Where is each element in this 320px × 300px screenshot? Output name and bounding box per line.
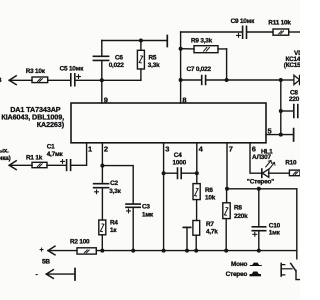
resistor R1 — [32, 162, 47, 167]
wire R11 right cut — [289, 31, 300, 33]
wire pin 2 — [101, 143, 103, 184]
wire rail — [96, 250, 296, 252]
node output-left arrow — [9, 164, 32, 166]
svg-text:С2: С2 — [110, 180, 118, 187]
svg-text:R7: R7 — [206, 221, 214, 228]
svg-text:6: 6 — [252, 145, 256, 154]
svg-text:R2 100: R2 100 — [70, 239, 90, 246]
node pin7 branch — [225, 187, 229, 191]
svg-text:3,3k: 3,3k — [148, 62, 160, 69]
svg-text:4,7мк: 4,7мк — [47, 151, 64, 158]
svg-text:220k: 220k — [234, 213, 248, 220]
wire pin 7 — [226, 143, 228, 189]
wire C1 to R1 — [47, 164, 66, 166]
resistor R2 — [77, 248, 96, 254]
wire R3 to C5 — [48, 79, 70, 81]
svg-text:R9 3,3k: R9 3,3k — [191, 38, 213, 45]
capacitor C5 — [71, 74, 75, 86]
svg-text:1к: 1к — [110, 227, 117, 234]
capacitor C10 — [252, 227, 265, 231]
svg-text:+: + — [40, 247, 44, 254]
ground chassis bar minus — [74, 269, 76, 281]
wire top rail to C9 — [181, 31, 242, 33]
switch SA1 stereo/mono — [296, 189, 298, 259]
svg-text:АЛ307: АЛ307 — [252, 154, 271, 161]
wire loop left vertical with C6 — [101, 41, 103, 81]
svg-text:1: 1 — [88, 144, 92, 153]
wire C7 row left — [181, 79, 202, 81]
svg-text:С1: С1 — [47, 144, 55, 151]
svg-text:R6: R6 — [205, 187, 213, 194]
svg-text:КА2263): КА2263) — [37, 120, 65, 129]
resistor R10 — [289, 170, 300, 176]
svg-text:R10: R10 — [285, 159, 297, 166]
resistor R6 — [193, 184, 200, 200]
node pin5 junction — [279, 133, 283, 137]
capacitor C1 — [67, 160, 71, 171]
node rail tap — [185, 249, 189, 253]
node junction pin9 — [100, 78, 104, 82]
bottom rail wire — [48, 250, 77, 252]
wire pin 1 — [71, 143, 86, 166]
svg-text:С9 10мк: С9 10мк — [231, 18, 256, 25]
wire zener node down — [280, 80, 282, 135]
svg-text:С4: С4 — [174, 152, 182, 159]
svg-text:R11 10k: R11 10k — [268, 20, 291, 27]
wire pin 5 — [266, 134, 293, 136]
node C7 left — [179, 78, 183, 82]
capacitor C2 — [94, 184, 109, 188]
capacitor C6 — [93, 56, 108, 60]
node zener top — [279, 78, 283, 82]
resistor R3 — [32, 77, 48, 83]
svg-text:R5: R5 — [149, 54, 157, 61]
node R9 tap — [179, 47, 183, 51]
svg-text:С3: С3 — [142, 204, 150, 211]
wire pin 4 — [196, 143, 198, 184]
svg-text:1000: 1000 — [173, 159, 187, 166]
resistor R11 — [273, 29, 289, 35]
wire C10 branch — [258, 189, 260, 227]
capacitor C9 — [243, 26, 247, 38]
svg-text:R4: R4 — [110, 220, 118, 227]
svg-text:Стерео: Стерео — [226, 271, 248, 278]
svg-text:2: 2 — [104, 144, 108, 153]
terminal tap bar near R7 — [183, 226, 190, 228]
ground chassis bar top — [166, 36, 168, 47]
capacitor C4 — [164, 172, 197, 174]
svg-text:ика): ика) — [0, 155, 11, 162]
svg-text:5В: 5В — [42, 259, 50, 266]
wire pin 8 vertical — [180, 32, 182, 103]
node C8 tap — [279, 109, 283, 113]
svg-text:(КС15: (КС15 — [284, 62, 300, 69]
node C10 tap — [257, 187, 261, 191]
node rail R7 — [194, 249, 198, 253]
resistor R8 — [226, 189, 228, 203]
wire C7 to zener node — [206, 79, 281, 81]
wire input to R3 — [9, 79, 32, 81]
ground chassis bar pin5 — [293, 129, 295, 141]
node input-left arrow (top input terminal) — [9, 76, 16, 85]
svg-text:R1 1k: R1 1k — [26, 155, 43, 162]
node rail R8 — [224, 249, 228, 253]
resistor R7 — [193, 221, 200, 236]
svg-text:3,3к: 3,3к — [109, 188, 121, 195]
resistor R5 — [140, 41, 142, 81]
wire loop top — [102, 40, 167, 42]
svg-text:С10: С10 — [269, 222, 281, 229]
svg-text:10k: 10k — [205, 194, 216, 201]
capacitor C7 — [202, 76, 206, 85]
resistor R9 — [181, 48, 227, 50]
node rail C3 — [131, 249, 135, 253]
wire pin 3 — [163, 143, 165, 251]
node rail C10 — [257, 249, 261, 253]
node C4 right — [195, 171, 199, 175]
svg-text:ых.: ых. — [0, 148, 9, 155]
wire loop bottom — [102, 79, 141, 81]
power plus terminal arrow — [48, 246, 55, 255]
svg-text:С7 0,022: С7 0,022 — [187, 66, 212, 73]
wire branch to C3 — [102, 166, 133, 204]
capacitor C3 — [126, 204, 140, 207]
svg-text:0,022: 0,022 — [109, 62, 125, 69]
node rail R4 — [100, 249, 104, 253]
svg-text:7: 7 — [229, 144, 233, 153]
svg-text:"Стерео": "Стерео" — [247, 179, 274, 186]
power minus terminal arrow — [46, 270, 53, 279]
node C7 right junction — [225, 78, 229, 82]
capacitor C8 — [281, 110, 293, 112]
svg-text:С5 10мк: С5 10мк — [60, 65, 85, 72]
wire pin 6 to LED — [250, 143, 261, 173]
svg-text:9: 9 — [104, 95, 108, 104]
svg-text:3: 3 — [165, 144, 169, 153]
wire pin 9 — [101, 80, 103, 103]
wire C9 to R11 — [247, 31, 273, 33]
wire R9 right vertical — [226, 49, 228, 80]
LED HL1 — [261, 169, 263, 177]
node rail pin3 — [162, 249, 166, 253]
node C4 left — [162, 171, 166, 175]
wire C5 to node — [76, 79, 102, 81]
svg-text:С6: С6 — [115, 54, 123, 61]
svg-text:R3 10к: R3 10к — [26, 68, 46, 75]
svg-text:220: 220 — [289, 96, 300, 103]
svg-text:8: 8 — [182, 96, 186, 105]
wire C10 to rail — [258, 231, 260, 251]
svg-text:1мк: 1мк — [142, 211, 154, 218]
wire stereo line — [227, 188, 297, 190]
zener diode VD1 — [281, 79, 293, 81]
node R5 top junction — [139, 39, 143, 43]
svg-text:Моно: Моно — [231, 261, 247, 268]
wire C3 to rail — [132, 207, 134, 250]
node pin2 branch — [100, 164, 104, 168]
wire C2 to R4 — [101, 188, 103, 220]
svg-text:1мк: 1мк — [269, 230, 281, 237]
wire LED to R10 — [269, 172, 290, 174]
resistor R4 — [99, 220, 106, 235]
op-amp U1 : IC DA1 TA7343AP box — [71, 103, 266, 143]
svg-text:R8: R8 — [234, 205, 242, 212]
svg-text:5: 5 — [268, 126, 272, 135]
wire R6 to R7 — [196, 200, 198, 221]
svg-text:4,7k: 4,7k — [206, 228, 218, 235]
